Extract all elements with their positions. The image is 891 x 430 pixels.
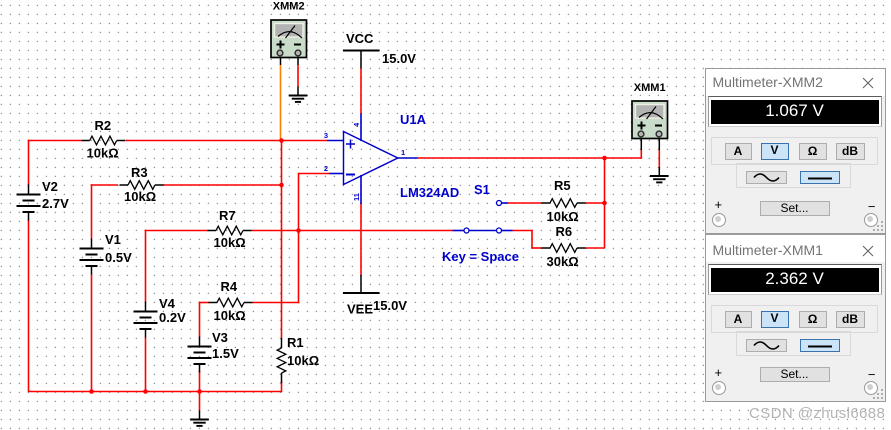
battery V2 [17, 185, 41, 221]
battery V4 [134, 302, 158, 338]
svg-text:1.5V: 1.5V [212, 346, 239, 361]
switch S1 [453, 201, 513, 234]
svg-text:1: 1 [401, 148, 405, 157]
value 10k&#937; of R7 [214, 235, 246, 250]
resistor R3 [120, 181, 164, 190]
resistor R7 [208, 226, 252, 235]
wire R3 right segment to node column [163, 184, 282, 186]
label R6 [556, 224, 573, 239]
wire R7 left vertical x=145.5 down to V4 [145, 230, 147, 302]
junction V1 bottom rail [89, 389, 94, 394]
value 15.0V of VCC [382, 51, 416, 66]
label S1 [474, 182, 490, 197]
pin number 3 [324, 131, 328, 140]
label R1 [287, 335, 304, 350]
battery V1 [80, 239, 104, 275]
pin number 1 [401, 148, 405, 157]
label LM324AD [400, 185, 459, 200]
label Key = Space [442, 249, 519, 264]
wire V3 bottom to bottom rail [199, 371, 201, 393]
label VEE [347, 302, 373, 317]
wire R2-left vertical from R2 to V2 top, x=28 [28, 140, 30, 185]
wire XMM2 minus red segment [297, 65, 299, 87]
battery V3 [188, 337, 212, 373]
svg-text:R4: R4 [221, 279, 238, 294]
label VCC [346, 31, 374, 46]
wire R5 right red segment [585, 202, 605, 204]
svg-text:R6: R6 [556, 224, 573, 239]
svg-text:V2: V2 [42, 179, 58, 194]
wire R7 right long segment to switch S1 [252, 230, 453, 232]
label R7 [219, 208, 236, 223]
label R4 [221, 279, 238, 294]
svg-text:V1: V1 [105, 232, 121, 247]
value 0.5V of V1 [105, 250, 132, 265]
watermark [749, 405, 885, 422]
svg-text:VEE: VEE [347, 302, 373, 317]
label V3 [212, 330, 228, 345]
wire VCC stub red down to op-amp pin4 [360, 69, 362, 115]
svg-text:10kΩ: 10kΩ [124, 189, 156, 204]
wire R4 left corner segment [199, 302, 209, 304]
wire output column x=604.5 down to R6 [604, 158, 606, 248]
svg-text:3: 3 [324, 131, 328, 140]
resistor R2 [81, 136, 125, 145]
op-amp pin4 stub vertical [360, 114, 362, 142]
svg-text:R2: R2 [95, 118, 112, 133]
svg-text:U1A: U1A [400, 112, 427, 127]
wire bottom rail y=391.5 from x=28 to R1 bottom [28, 391, 282, 393]
svg-text:XMM1: XMM1 [634, 82, 666, 94]
svg-text:R1: R1 [287, 335, 304, 350]
resistor R4 [209, 298, 253, 307]
svg-text:0.2V: 0.2V [159, 310, 186, 325]
wire R2 right to op-amp pin3 junction segment [126, 140, 328, 142]
ground main at bottom center [190, 411, 209, 426]
wire R5 left red segment from switch contact [508, 202, 542, 204]
value 15.0V of VEE [373, 298, 407, 313]
svg-text:XMM2: XMM2 [273, 1, 305, 13]
wire XMM2 minus stub black [297, 57, 299, 66]
ground for XMM2 minus terminal [289, 87, 308, 102]
wire XMM1 minus stub black [658, 137, 660, 150]
svg-text:10kΩ: 10kΩ [547, 209, 579, 224]
instrument panel Multimeter-XMM1 [705, 234, 886, 403]
value 0.2V of V4 [159, 310, 186, 325]
wire R4 right segment to column [253, 302, 300, 304]
label R2 [95, 118, 112, 133]
instrument panel Multimeter-XMM2 [705, 68, 886, 234]
svg-text:R7: R7 [219, 208, 236, 223]
wire pin2/R4 vertical column x=298.5 [298, 173, 300, 304]
op-amp U1A triangle [344, 132, 398, 185]
wire V4 bottom to bottom rail [145, 338, 147, 393]
wire V2 bottom to bottom rail [28, 220, 30, 393]
wire R1 bottom red to rail [281, 382, 283, 392]
wire orange XMM2 plus terminal down to node at (281,140) [280, 65, 282, 141]
svg-text:10kΩ: 10kΩ [214, 235, 246, 250]
wire XMM1 plus terminal down to output line [640, 137, 642, 159]
svg-text:15.0V: 15.0V [382, 51, 416, 66]
value 10k&#937; of R5 [547, 209, 579, 224]
junction node R7/pin2/R4 column [296, 228, 301, 233]
power VCC symbol [343, 51, 380, 69]
multimeter XMM1 icon [632, 82, 668, 139]
wire R3 left vertical x=91 from R3 to V1 [91, 184, 93, 238]
svg-text:R3: R3 [131, 165, 148, 180]
svg-text:S1: S1 [474, 182, 490, 197]
label V1 [105, 232, 121, 247]
svg-text:2.7V: 2.7V [42, 196, 69, 211]
value 10k&#937; of R1 [287, 353, 319, 368]
svg-text:R5: R5 [554, 178, 571, 193]
label U1A [400, 112, 427, 127]
value 2.7V of V2 [42, 196, 69, 211]
junction V4 bottom rail [143, 389, 148, 394]
resistor R6 [542, 244, 586, 253]
resistor R1 vertical [277, 338, 286, 383]
wire R2 line left segment y=140 [28, 140, 81, 142]
op-amp pin1 output stub [398, 157, 418, 159]
svg-text:10kΩ: 10kΩ [287, 353, 319, 368]
value 10k&#937; of R3 [124, 189, 156, 204]
svg-text:Key = Space: Key = Space [442, 249, 519, 264]
wire R3 line left segment y=185 [91, 184, 118, 186]
value 30k&#937; of R6 [547, 254, 579, 269]
value 10k&#937; of R2 [87, 146, 119, 161]
svg-text:11: 11 [352, 193, 361, 201]
svg-text:2: 2 [324, 164, 328, 173]
svg-text:30kΩ: 30kΩ [547, 254, 579, 269]
multimeter XMM2 icon [271, 1, 307, 58]
value 1.5V of V3 [212, 346, 239, 361]
pin number 4 [352, 122, 361, 127]
wire op-amp output red y=158 [417, 157, 641, 159]
label R5 [554, 178, 571, 193]
svg-text:15.0V: 15.0V [373, 298, 407, 313]
junction node R2/XMM2/column [279, 138, 284, 143]
svg-text:V3: V3 [212, 330, 228, 345]
ground for XMM1 minus terminal [650, 167, 669, 182]
power VEE symbol [343, 275, 380, 293]
pin number 11 [352, 193, 361, 201]
wire R7 line left segment y=230.5 [145, 230, 208, 232]
label R3 [131, 165, 148, 180]
wire V1 bottom to bottom rail [91, 275, 93, 393]
junction V3 bottom rail ground node [197, 389, 202, 394]
op-amp pin2 stub [329, 173, 344, 175]
wire pin2 horizontal red y=173.5 [299, 173, 330, 175]
wire XMM1 minus red segment [658, 150, 660, 170]
wire XMM2 plus stub black [280, 57, 282, 66]
svg-text:V4: V4 [159, 296, 176, 311]
label V2 [42, 179, 58, 194]
wire VEE pin11 red segment [360, 203, 362, 276]
svg-text:LM324AD: LM324AD [400, 185, 459, 200]
resistor R5 [542, 199, 586, 208]
label V4 [159, 296, 176, 311]
svg-text:VCC: VCC [346, 31, 374, 46]
value 10k&#937; of R4 [214, 308, 246, 323]
wire ground stub below bottom rail [199, 392, 201, 411]
wire R6 right red segment [585, 247, 605, 249]
svg-text:0.5V: 0.5V [105, 250, 132, 265]
op-amp pin3 stub [327, 140, 344, 142]
wire R6 feed: red from switch arm then down [513, 230, 543, 248]
junction R5 right node [602, 201, 607, 206]
op-amp pin11 stub vertical [360, 175, 362, 204]
svg-text:10kΩ: 10kΩ [87, 146, 119, 161]
junction output node to R5/R6 column [602, 156, 607, 161]
svg-text:10kΩ: 10kΩ [214, 308, 246, 323]
pin number 2 [324, 164, 328, 173]
wire node column x=281 from R2 line down to R1 top [281, 141, 283, 339]
junction node R3/column [279, 183, 284, 188]
wire V3 top vertical x=199.5 [199, 302, 201, 337]
